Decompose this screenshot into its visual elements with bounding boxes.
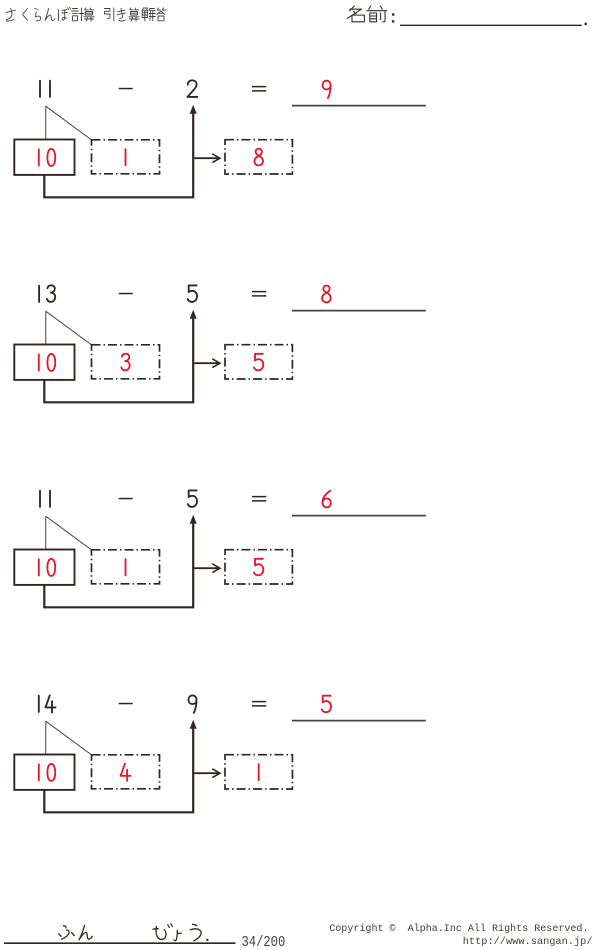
svg-text:http://www.sangan.jp/: http://www.sangan.jp/ [463, 936, 593, 948]
svg-text:Copyright © Alpha.Inc All Rig: Copyright © Alpha.Inc All Rights Reserve… [329, 923, 588, 935]
svg-text:34/200: 34/200 [242, 934, 286, 950]
